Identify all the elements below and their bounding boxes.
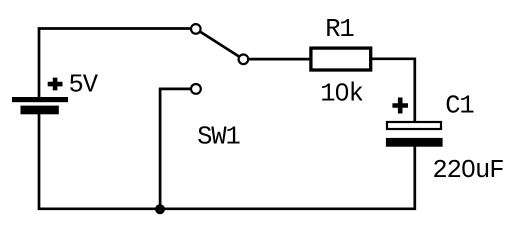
svg-text:R1: R1 <box>325 15 354 44</box>
capacitor C1 bottom plate (solid) <box>386 138 443 147</box>
switch SW1 blade (diagonal arm) <box>201 32 239 56</box>
battery BT1 negative plate (short thick bar) <box>21 106 59 115</box>
junction dot on bottom rail <box>155 204 165 214</box>
wire from switch throw to resistor R1 <box>249 58 310 61</box>
wire from battery positive up and right to switch pole <box>39 29 191 99</box>
wire from resistor R1 right side down to capacitor C1 <box>372 59 415 122</box>
svg-text:5V: 5V <box>69 70 99 99</box>
battery polarity plus sign <box>48 78 63 91</box>
resistor R1 body <box>311 48 371 70</box>
svg-text:C1: C1 <box>445 92 474 121</box>
svg-text:SW1: SW1 <box>197 122 240 151</box>
capacitor C1 polarity plus sign <box>392 98 408 114</box>
wire from second throw contact down to bottom rail <box>160 89 190 209</box>
switch SW1 second throw contact circle <box>191 84 201 94</box>
switch SW1 throw contact circle (to R1) <box>239 55 249 65</box>
capacitor C1 top plate (positive, outlined) <box>387 122 441 129</box>
wire from capacitor C1 bottom down, bottom rail, and battery negative down <box>39 114 415 209</box>
switch SW1 pole contact circle <box>191 24 201 34</box>
battery BT1 positive plate (long bar) <box>12 97 68 102</box>
